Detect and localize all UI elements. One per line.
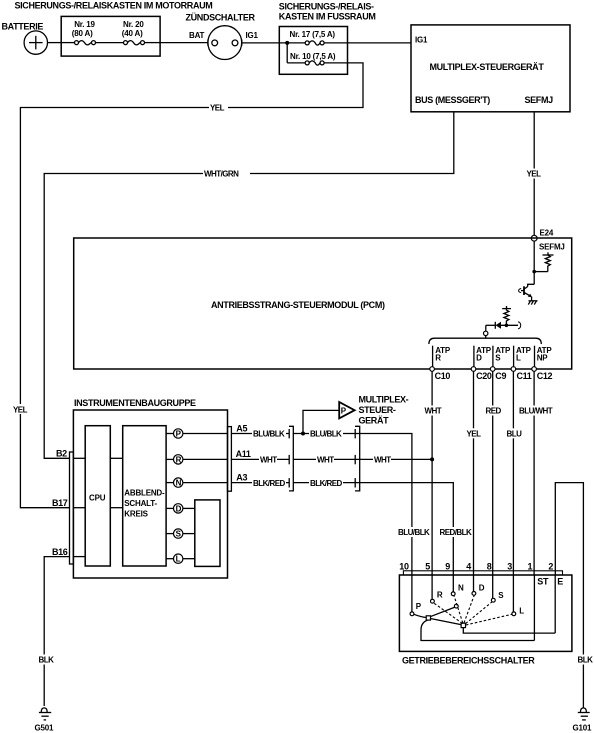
wire pin1 ST internal <box>533 575 535 641</box>
svg-text:GETRIEBEBEREICHSSCHALTER: GETRIEBEBEREICHSSCHALTER <box>402 656 535 666</box>
svg-text:(40 A): (40 A) <box>122 29 143 38</box>
wire B16 to ground (BLK) <box>44 557 69 706</box>
svg-text:BLU/BLK: BLU/BLK <box>398 528 430 537</box>
svg-text:YEL: YEL <box>210 104 225 113</box>
label: BLU/BLK seg2 <box>309 429 343 439</box>
svg-text:N: N <box>458 583 464 592</box>
footwell fuse/relay box <box>279 27 347 75</box>
wire fusebox to ignition switch <box>160 42 208 44</box>
svg-text:5: 5 <box>425 562 430 572</box>
dashed arm to N <box>454 596 463 623</box>
svg-text:G501: G501 <box>35 724 55 733</box>
svg-text:1: 1 <box>528 562 533 572</box>
multiplex control unit box <box>411 25 570 112</box>
label: YEL on SEFMJ wire <box>526 169 544 179</box>
svg-text:8: 8 <box>487 562 492 572</box>
wire WHT seg3 to junction <box>360 458 432 460</box>
svg-text:B2: B2 <box>56 449 67 459</box>
wire SEFMJ (YEL) to E24 <box>533 112 535 236</box>
connector bracket B (left) <box>70 452 74 564</box>
pin C11 <box>511 367 516 372</box>
svg-text:2: 2 <box>548 562 553 572</box>
engine compartment fuse/relay box <box>61 16 160 56</box>
wire to multiplex amp <box>303 410 339 433</box>
label: BLU on C11 wire <box>506 428 523 438</box>
svg-text:STEUER-: STEUER- <box>359 405 396 415</box>
fuse Nr.20 <box>124 41 161 45</box>
svg-text:Nr. 10 (7,5 A): Nr. 10 (7,5 A) <box>290 52 336 61</box>
svg-text:B16: B16 <box>52 547 68 557</box>
wire C11 to pin3 (BLU) <box>512 371 514 571</box>
wire BUS (WHT/GRN) to cluster B2 <box>44 112 454 459</box>
wire C20 to pin4 (YEL) <box>473 371 475 571</box>
wire pin9 to contact N <box>452 575 454 592</box>
svg-text:BLK/RED: BLK/RED <box>310 479 342 488</box>
wire pin5 to contact R <box>431 575 433 599</box>
svg-text:WHT: WHT <box>260 456 277 465</box>
rotor arm solid (P position) <box>414 607 461 625</box>
svg-text:IG1: IG1 <box>246 31 259 40</box>
svg-text:MULTIPLEX-: MULTIPLEX- <box>359 395 409 405</box>
label: BLK right <box>577 655 594 665</box>
label: WHT/GRN <box>203 168 250 179</box>
svg-text:BLK: BLK <box>578 656 594 665</box>
contact D <box>472 592 476 596</box>
wire A3 BLK/RED to connector1 <box>231 482 289 484</box>
fuse Nr.19 <box>61 41 95 45</box>
wire battery to fusebox <box>48 42 62 44</box>
label: BLU/BLK at switch <box>398 527 431 537</box>
label: RED/BLK at switch <box>439 527 472 537</box>
wire jog to transistor collector <box>528 284 535 286</box>
wire C9 to pin8 (RED) <box>492 371 494 571</box>
svg-text:Nr. 20: Nr. 20 <box>123 20 144 29</box>
contact N <box>451 592 455 596</box>
svg-text:YEL: YEL <box>467 430 482 439</box>
wire movable contact to E rail <box>463 628 555 634</box>
wire ignition to footwell fusebox <box>242 42 279 44</box>
svg-text:4: 4 <box>466 562 471 572</box>
svg-text:SICHERUNGS-/RELAISKASTEN IM MO: SICHERUNGS-/RELAISKASTEN IM MOTORRAUM <box>15 1 213 11</box>
transistor emitter arrow <box>528 294 532 298</box>
indicator S <box>166 529 195 539</box>
pin C9 <box>490 367 495 372</box>
contact S <box>491 598 495 602</box>
svg-text:D: D <box>476 353 482 362</box>
svg-text:P: P <box>416 602 422 611</box>
svg-text:E: E <box>557 576 563 586</box>
indicator N <box>166 478 183 488</box>
label: WHT seg2 <box>316 454 334 464</box>
svg-text:3: 3 <box>507 562 512 572</box>
svg-text:CPU: CPU <box>89 494 106 503</box>
svg-text:BAT: BAT <box>189 31 205 40</box>
label: YEL on horizontal <box>209 102 228 113</box>
wire A5 BLU/BLK to connector1 <box>231 433 289 435</box>
op-amp arrow to multiplex unit <box>339 402 354 418</box>
label: BLU/WHT on C12 wire <box>518 406 553 416</box>
label: BLK left <box>38 655 55 665</box>
wires B pins into CPU <box>73 458 85 556</box>
svg-text:INSTRUMENTENBAUGRUPPE: INSTRUMENTENBAUGRUPPE <box>74 398 196 408</box>
svg-text:ZÜNDSCHALTER: ZÜNDSCHALTER <box>186 13 256 23</box>
svg-text:(80 A): (80 A) <box>72 29 93 38</box>
ground (PCM internal chassis) <box>528 301 537 305</box>
svg-text:MULTIPLEX-STEUERGERÄT: MULTIPLEX-STEUERGERÄT <box>430 62 545 72</box>
svg-text:C9: C9 <box>495 371 506 381</box>
svg-text:C10: C10 <box>435 371 451 381</box>
label: BLK/RED seg2 <box>309 478 343 488</box>
dashed arm to L <box>466 614 512 625</box>
svg-text:WHT: WHT <box>425 407 442 416</box>
svg-text:L: L <box>516 353 521 362</box>
fuse Nr.10 <box>287 61 347 65</box>
svg-text:RED: RED <box>486 407 502 416</box>
wires CPU to dimming circuit <box>110 458 122 507</box>
wire BLU/BLK seg2 <box>293 433 359 435</box>
svg-text:RED/BLK: RED/BLK <box>440 528 472 537</box>
svg-text:GERÄT: GERÄT <box>359 416 390 426</box>
pin C12 <box>532 367 537 372</box>
svg-text:9: 9 <box>445 562 450 572</box>
svg-text:L: L <box>519 606 524 615</box>
wire WHT seg2 <box>293 458 359 460</box>
svg-text:Nr. 19: Nr. 19 <box>74 20 95 29</box>
wire C10 to pin5 (WHT) <box>431 371 433 571</box>
label: RED on C9 wire <box>485 406 502 416</box>
wire pin10 to contact P <box>411 575 413 612</box>
svg-text:YEL: YEL <box>527 170 542 179</box>
battery <box>24 31 47 54</box>
svg-text:BLU: BLU <box>507 430 523 439</box>
pad on bracket <box>484 331 488 335</box>
wire between fuses <box>96 42 124 44</box>
svg-text:ST: ST <box>537 576 549 586</box>
dimming circuit box <box>123 426 166 566</box>
node: branch in footwell box <box>285 41 289 45</box>
svg-text:WHT/GRN: WHT/GRN <box>204 170 239 179</box>
svg-text:WHT: WHT <box>317 456 334 465</box>
label: WHT seg1 <box>259 454 277 464</box>
wire C12 to pin1 (BLU/WHT) <box>533 371 535 571</box>
svg-text:E24: E24 <box>540 229 554 238</box>
svg-text:BLK/RED: BLK/RED <box>253 479 285 488</box>
diode D1 <box>486 322 521 329</box>
svg-text:A11: A11 <box>236 449 251 459</box>
wire BLK/RED seg2 <box>293 482 359 484</box>
PCM box <box>74 238 572 369</box>
node: WHT junction <box>430 457 434 461</box>
svg-text:S: S <box>495 353 501 362</box>
svg-text:C20: C20 <box>476 371 492 381</box>
label: BLU/BLK seg1 <box>252 429 286 439</box>
connector C2 <box>355 426 360 491</box>
svg-text:IG1: IG1 <box>415 35 428 44</box>
instrument cluster box <box>73 410 227 578</box>
CPU box <box>85 426 110 566</box>
indicator L <box>166 554 195 564</box>
wire fuse17 to multiplex unit <box>348 42 412 44</box>
label: WHT seg3 <box>373 454 391 464</box>
contact P <box>410 612 414 616</box>
svg-text:KREIS: KREIS <box>124 510 148 519</box>
fuse Nr.17 <box>287 41 347 45</box>
svg-text:BUS (MESSGER'T): BUS (MESSGER'T) <box>415 95 490 105</box>
svg-text:BLU/WHT: BLU/WHT <box>519 407 553 416</box>
svg-text:N: N <box>176 479 182 488</box>
wire pin3 to contact L <box>512 575 514 612</box>
svg-text:C12: C12 <box>537 371 553 381</box>
svg-text:L: L <box>176 555 181 564</box>
transistor Q1 <box>519 286 532 301</box>
dashed arm to S <box>466 602 493 624</box>
switch connector strip <box>403 571 562 575</box>
pin C20 <box>471 367 476 372</box>
svg-text:B17: B17 <box>52 498 68 508</box>
resistor R2 <box>502 306 511 325</box>
movable contact <box>461 623 465 627</box>
svg-text:SCHALT-: SCHALT- <box>124 499 157 508</box>
ATP cell dividers <box>433 346 535 369</box>
svg-text:SEFMJ: SEFMJ <box>539 242 565 251</box>
svg-text:BATTERIE: BATTERIE <box>2 22 44 32</box>
wire arm to ST rail <box>421 620 534 640</box>
indicator block box <box>195 500 220 567</box>
wire pin2 E internal <box>554 575 556 633</box>
node: R2-diode junction <box>505 324 509 328</box>
wire BLK/RED to pin9 <box>360 483 454 571</box>
svg-text:D: D <box>176 504 182 513</box>
wire pin4 to contact D <box>473 575 475 592</box>
wire A11 WHT to connector1 <box>231 458 289 460</box>
indicator P <box>166 429 183 439</box>
label: BLK/RED seg1 <box>252 478 286 488</box>
svg-text:D: D <box>479 583 485 592</box>
wire E24 internal down <box>533 241 535 284</box>
svg-text:R: R <box>176 455 182 464</box>
svg-text:WHT: WHT <box>374 456 391 465</box>
arm contact ST <box>426 616 430 620</box>
svg-text:R: R <box>435 353 441 362</box>
transmission range switch box <box>399 575 572 651</box>
svg-text:BLK: BLK <box>39 656 55 665</box>
svg-text:R: R <box>437 591 443 600</box>
dashed arm to D <box>464 595 474 623</box>
wires P/R/N to connector A <box>183 434 228 483</box>
arm contact N-line <box>454 604 458 608</box>
svg-text:SEFMJ: SEFMJ <box>525 95 554 105</box>
svg-text:S: S <box>498 591 504 600</box>
svg-text:C11: C11 <box>517 371 532 381</box>
bracket over ATP pins <box>429 338 541 344</box>
indicator D <box>166 504 195 514</box>
wire to bracket pad <box>485 325 487 331</box>
wire fuse10 down-around (YEL feed) <box>20 63 363 508</box>
svg-text:Nr. 17 (7,5 A): Nr. 17 (7,5 A) <box>290 30 336 39</box>
svg-text:ABBLEND-: ABBLEND- <box>124 489 165 498</box>
wire pin8 to contact S <box>492 575 494 598</box>
wire branch down to fuse 10 <box>279 43 287 63</box>
node: resistor tap <box>532 270 536 274</box>
contact R <box>431 599 435 603</box>
pin C10 <box>430 367 435 372</box>
svg-text:G101: G101 <box>573 724 593 733</box>
svg-text:KASTEN IM FUSSRAUM: KASTEN IM FUSSRAUM <box>279 12 376 22</box>
label: YEL on C20 wire <box>466 428 483 438</box>
ground G501 <box>39 708 51 720</box>
contact L <box>512 612 516 616</box>
connector C1 <box>289 426 293 491</box>
node: multiplex tap <box>301 432 305 436</box>
svg-text:BLU/BLK: BLU/BLK <box>310 430 342 439</box>
indicator R <box>166 455 183 465</box>
svg-text:A3: A3 <box>236 472 247 482</box>
label: YEL on left vertical <box>12 404 30 414</box>
label: WHT on C10 wire <box>424 406 442 416</box>
resistor R1 pull-up <box>534 252 553 271</box>
ignition switch <box>208 26 242 60</box>
wire E pin up-over to G101 <box>555 483 583 708</box>
connector bracket A (right) <box>228 427 232 492</box>
svg-text:NP: NP <box>537 353 549 362</box>
wire pad stub <box>485 336 487 339</box>
svg-text:10: 10 <box>399 562 409 572</box>
svg-text:A5: A5 <box>236 423 247 433</box>
svg-text:BLU/BLK: BLU/BLK <box>253 430 285 439</box>
ground G101 <box>578 708 590 720</box>
svg-text:ANTRIEBSSTRANG-STEUERMODUL (PC: ANTRIEBSSTRANG-STEUERMODUL (PCM) <box>211 300 385 310</box>
pin E24 <box>531 235 537 241</box>
svg-text:YEL: YEL <box>13 405 28 414</box>
wire BLU/BLK to pin10 <box>360 434 412 571</box>
svg-text:SICHERUNGS-/RELAIS-: SICHERUNGS-/RELAIS- <box>279 2 374 12</box>
dashed arm to R <box>434 603 463 624</box>
